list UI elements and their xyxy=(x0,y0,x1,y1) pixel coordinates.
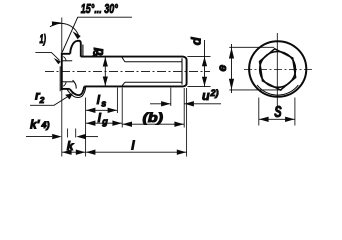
dimension (b) xyxy=(122,123,184,125)
bolt head: hex corner chamfer arc lower xyxy=(63,82,66,86)
dimension ls xyxy=(86,109,118,111)
bolt head: hex left face xyxy=(61,53,63,91)
svg-text:2: 2 xyxy=(39,95,45,105)
extension line: chamfer 15..30 deg with leader shoulder xyxy=(62,17,132,52)
svg-text:l: l xyxy=(97,93,101,107)
thread: run-out diagonal bottom xyxy=(122,82,125,86)
extension line: bearing face plane xyxy=(85,98,87,157)
centerline horizontal of end view xyxy=(244,69,312,71)
extension line: end of plain shank (ls) xyxy=(116,88,118,113)
bolt head: under-head fillet bottom xyxy=(82,86,84,92)
angle arrow at chamfer line xyxy=(73,31,81,39)
extension line: thread tip end (l) xyxy=(186,88,188,157)
bolt head: flange upper-left profile xyxy=(70,41,76,54)
svg-text:l: l xyxy=(131,138,135,152)
thread: run-out diagonal top xyxy=(122,57,125,62)
wire: main axis centerline of bolt side view xyxy=(45,70,210,72)
centerline vertical of end view xyxy=(276,33,278,110)
extension line: u / b end xyxy=(183,88,185,128)
dimension d line with arrows xyxy=(204,40,206,87)
note 1) leader with arrow xyxy=(35,52,59,60)
k' extension tick inner xyxy=(67,129,69,138)
angle dimension arc xyxy=(50,23,79,36)
bolt head: flange bottom right corner xyxy=(79,93,83,96)
svg-text:s: s xyxy=(101,99,106,109)
dimension S line with arrows xyxy=(259,118,295,120)
dimension u xyxy=(150,103,221,105)
dimension k xyxy=(62,151,86,153)
dimension d at thread end: extension lines xyxy=(187,55,210,57)
extension line: head face plane (vertical, for angle and k) xyxy=(61,18,63,157)
thread: end chamfer line xyxy=(181,58,183,84)
label d_g (rotated d + subscript g) xyxy=(92,47,106,55)
hexagon head outline xyxy=(260,49,296,90)
thread: minor diameter top line xyxy=(125,61,182,63)
extension line: u start xyxy=(170,88,172,106)
svg-text:u: u xyxy=(202,89,210,103)
svg-text:e: e xyxy=(215,65,229,72)
svg-text:4): 4) xyxy=(41,120,50,130)
svg-text:g: g xyxy=(101,117,108,127)
dimension e: extension lines xyxy=(229,47,282,90)
dimension lg xyxy=(86,122,123,124)
shank: tip end face xyxy=(183,57,187,87)
svg-text:1): 1) xyxy=(40,34,47,46)
r2 leader with arrow xyxy=(30,94,72,105)
bolt head: hex top silhouette edge xyxy=(62,53,70,55)
bolt head: hex bottom silhouette edge xyxy=(62,88,70,90)
bolt head: flange face chamfer line top xyxy=(82,45,84,57)
bolt head: hex corner chamfer arc upper xyxy=(63,57,66,61)
svg-text:(b): (b) xyxy=(143,111,164,125)
k' extension tick outer xyxy=(75,129,77,138)
shank: outer diameter bottom line xyxy=(84,85,183,87)
dimension d_g: arrow line across shank xyxy=(104,57,106,87)
bolt head: flange lower-left profile xyxy=(70,89,79,95)
svg-text:k: k xyxy=(67,139,75,153)
hex top face chamfer circle xyxy=(260,52,296,88)
shank: outer diameter top line xyxy=(81,56,183,58)
svg-text:d: d xyxy=(188,36,203,45)
bolt head: hex facet line lower xyxy=(62,81,74,83)
angle arrow at face plane line xyxy=(52,21,62,26)
label e (rotated) xyxy=(215,65,229,72)
dimension e line with arrows xyxy=(231,44,233,93)
svg-text:k′: k′ xyxy=(30,117,41,131)
dimension S: extension lines xyxy=(258,98,260,126)
thread: minor diameter bottom line xyxy=(125,81,182,83)
flange cone edge arc xyxy=(257,85,298,95)
bolt head: flange-hex intersection curve xyxy=(73,80,77,88)
dimension l xyxy=(86,151,187,153)
bolt head: hex facet line upper xyxy=(62,60,72,62)
label d (rotated) xyxy=(188,36,203,45)
bolt head: flange top edge and right corner xyxy=(77,41,81,57)
bolt head: flange face chamfer curve bottom xyxy=(67,87,86,98)
svg-text:2): 2) xyxy=(210,88,219,98)
flange outer circle xyxy=(249,41,306,97)
extension line: thread run-out start (lg) xyxy=(121,88,123,128)
svg-text:l: l xyxy=(98,111,102,125)
svg-text:g: g xyxy=(92,47,99,57)
svg-text:S: S xyxy=(274,104,282,121)
bolt head: washer face rim line xyxy=(59,66,61,91)
svg-text:15°... 30°: 15°... 30° xyxy=(81,2,119,16)
